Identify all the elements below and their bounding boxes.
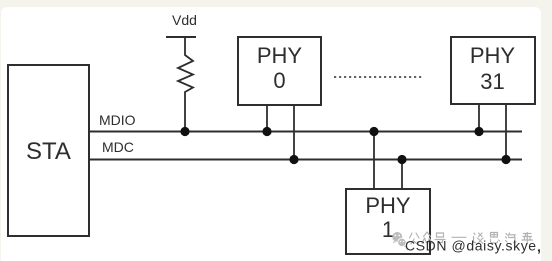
svg-text:STA: STA [26, 138, 71, 165]
svg-text:PHY: PHY [257, 43, 303, 68]
svg-text:PHY: PHY [365, 193, 411, 218]
svg-text:Vdd: Vdd [172, 12, 197, 28]
svg-text:MDIO: MDIO [99, 112, 136, 128]
svg-text:31: 31 [480, 69, 504, 94]
svg-text:CSDN @daisy.skye: CSDN @daisy.skye [405, 238, 537, 254]
svg-text:MDC: MDC [102, 139, 134, 155]
svg-text:0: 0 [273, 68, 285, 93]
svg-text:,: , [537, 239, 541, 255]
svg-text:PHY: PHY [470, 43, 516, 68]
svg-text:1: 1 [382, 217, 394, 242]
